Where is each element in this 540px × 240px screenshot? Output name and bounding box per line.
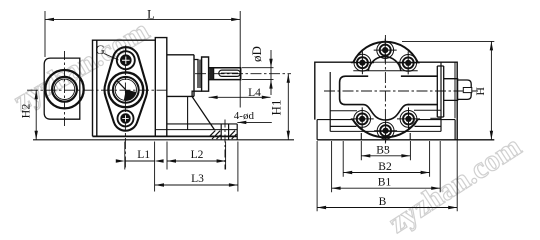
svg-text:L1: L1 [137, 149, 150, 161]
keyway slot [219, 70, 240, 76]
dim L line [45, 18, 240, 20]
dim H arrows [490, 41, 493, 139]
svg-text:4-ød: 4-ød [234, 110, 255, 122]
dim L1 L2 L3 extension lines [125, 142, 238, 192]
bolt top left [351, 51, 374, 74]
dim H extension top [402, 40, 494, 42]
dim oD line [270, 50, 272, 95]
svg-text:B3: B3 [376, 144, 390, 156]
foot right view [317, 120, 455, 140]
body bottom edge [93, 135, 238, 137]
foot inner line [330, 130, 441, 132]
dim L4 arrows [209, 96, 271, 99]
foot hatch left [210, 131, 221, 140]
svg-text:B2: B2 [378, 161, 392, 173]
centerline vertical pump (left view) [124, 46, 126, 171]
dim L3 line [155, 184, 238, 186]
top hump [368, 57, 401, 71]
centerline horizontal right view [324, 90, 478, 92]
rear plate outline [315, 62, 457, 140]
dim B extension lines [317, 140, 457, 212]
dim H line [490, 41, 492, 139]
dim B2 line [343, 172, 429, 174]
top plug G [117, 51, 135, 69]
support bracket [192, 91, 214, 129]
foot top edge [167, 123, 237, 125]
dim oD extension lines [242, 68, 274, 80]
svg-text:G: G [96, 42, 105, 57]
foot mid edge [155, 129, 237, 131]
housing step right [430, 117, 441, 119]
ground line right view [317, 139, 494, 141]
dim B1 extension lines [332, 141, 441, 192]
dim H1 arrows [287, 74, 290, 140]
svg-text:L4: L4 [248, 87, 261, 99]
top flange chord line [353, 61, 417, 63]
centerline foot bolt hole [224, 120, 226, 170]
pad edges [361, 133, 410, 140]
dim L2 line [167, 160, 226, 162]
body bottom edges [330, 125, 441, 127]
inner plate edge right [454, 62, 456, 118]
dim B2 extension lines [343, 141, 429, 177]
svg-text:L: L [147, 7, 155, 21]
bolt bottom right [397, 107, 420, 130]
gear radius line [117, 81, 126, 90]
watermark bottom-right [383, 130, 527, 240]
top inner line [353, 70, 417, 72]
end block [444, 79, 458, 101]
dim B line [317, 207, 457, 209]
svg-text:L3: L3 [191, 173, 204, 185]
svg-text:B: B [379, 196, 387, 208]
end cap [458, 80, 472, 99]
centerline shaft [195, 73, 291, 75]
dim L arrows [45, 18, 240, 21]
shaft shoulder [213, 68, 215, 80]
drive flange plate [202, 57, 209, 91]
port bore circle [52, 77, 77, 102]
housing right edge [440, 62, 442, 131]
keyway mid line [221, 72, 238, 74]
housing left edge [329, 72, 331, 131]
dim L extension lines [45, 11, 240, 108]
foot right edge [236, 124, 238, 140]
dim B3 line [361, 155, 410, 157]
centerline horizontal main (left view) [27, 89, 170, 91]
dim B3 extension lines [361, 141, 410, 160]
dim H2 line [35, 90, 37, 140]
dim H1 line [287, 74, 289, 140]
bolt bottom left [351, 107, 374, 130]
dim H2 arrows [35, 90, 38, 140]
svg-text:zyzhan.com: zyzhan.com [383, 130, 527, 240]
rear flange band [155, 38, 167, 137]
svg-text:H: H [473, 87, 487, 96]
top cover arc [353, 42, 417, 62]
port boss circle [45, 70, 83, 108]
svg-text:H2: H2 [18, 104, 32, 119]
foot bolt hole edges [221, 124, 228, 140]
cap notch [463, 88, 472, 93]
dim B1 line [332, 187, 441, 189]
port thread circle [54, 79, 74, 99]
leader G [104, 54, 119, 61]
ground line [33, 139, 294, 141]
bottom plug [118, 110, 134, 126]
oval cover outline (teardrop) [105, 47, 148, 131]
end plate [437, 66, 443, 117]
bolt bottom center [374, 119, 397, 142]
centerline vertical port flange [64, 51, 66, 126]
dim L1 line [125, 160, 155, 162]
dim oD arrows [269, 59, 272, 89]
svg-text:B1: B1 [378, 177, 392, 189]
svg-text:H1: H1 [268, 100, 283, 116]
capsule boss [340, 76, 438, 104]
shaft hub [194, 60, 200, 89]
bracket rear edge [187, 96, 189, 129]
central bore middle circle [113, 77, 139, 103]
pump body rectangle [93, 40, 156, 136]
leader 4-od [237, 121, 271, 123]
port flange outline [44, 58, 80, 119]
central bore outer circle [108, 72, 143, 107]
bottom cover arc [353, 119, 418, 137]
svg-text:øD: øD [249, 46, 264, 62]
dim L4 line [209, 96, 271, 98]
shaft [209, 68, 241, 80]
bolt top center [374, 39, 397, 62]
central bore inner circle [115, 79, 136, 100]
foot hatch right [229, 131, 236, 139]
centerline vertical right view [384, 35, 386, 150]
gear wedge [124, 90, 137, 101]
svg-text:L2: L2 [191, 149, 204, 161]
bearing housing [167, 55, 194, 97]
watermark top-left [8, 14, 155, 118]
bottom inner line [330, 109, 441, 112]
bolt top right [397, 51, 420, 74]
